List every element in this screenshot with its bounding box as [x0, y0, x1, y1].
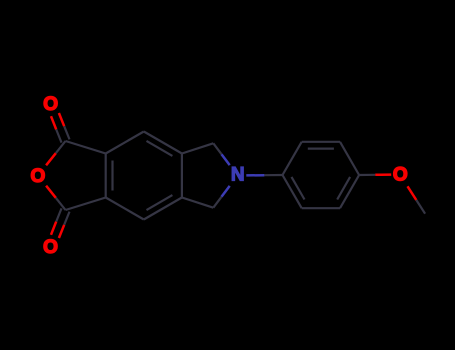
- bond C4-C4a: [144, 132, 182, 154]
- svg-text:N: N: [231, 165, 245, 186]
- bond O4-CH3 (methyl): [408, 186, 426, 213]
- double bond C1=O1 (carbonyl): [51, 113, 70, 143]
- aromatic inner line bottom-right edge: [147, 195, 173, 210]
- double bond C3=O3 (carbonyl): [51, 208, 70, 238]
- aromatic inner line phenyl lower-right edge: [337, 177, 350, 200]
- bond C4a-C5 (CH2): [182, 143, 213, 153]
- bond C7a2-C7b (CH2): [182, 198, 213, 208]
- bond C4a-C7a2: [181, 154, 183, 198]
- bond N6-C1' (N-aryl): [246, 174, 282, 177]
- bond O4-C4' (ether): [359, 173, 391, 176]
- bond O2-C1 (anhydride): [46, 141, 65, 165]
- aromatic inner line phenyl upper-left edge: [292, 177, 305, 200]
- bond C6'-C1': [283, 175, 302, 208]
- svg-text:O: O: [393, 165, 408, 186]
- bond C2'-C3': [302, 141, 340, 143]
- bond C4'-C5': [340, 175, 359, 208]
- bond N6-C7b: [213, 186, 229, 208]
- svg-text:O: O: [31, 166, 46, 187]
- svg-text:O: O: [43, 94, 58, 115]
- bond C3'-C4': [340, 142, 359, 175]
- bond C5'-C6': [302, 207, 340, 209]
- bond C3a-C4: [106, 132, 144, 154]
- bond O2-C3 (anhydride): [46, 186, 65, 210]
- aromatic inner line left edge: [111, 161, 113, 191]
- aromatic inner line phenyl top edge: [308, 148, 334, 150]
- svg-text:O: O: [43, 237, 58, 258]
- bond C1-C3a: [66, 141, 106, 154]
- bond C3-C7a: [66, 198, 106, 211]
- bond C7-C7a: [106, 198, 144, 220]
- bond N6-C5: [213, 143, 229, 165]
- aromatic inner line top-right edge: [147, 141, 173, 156]
- bond C7a2-C7: [144, 198, 182, 220]
- bond C7a-C3a (fused edge): [105, 154, 107, 198]
- bond C1'-C2': [283, 142, 302, 175]
